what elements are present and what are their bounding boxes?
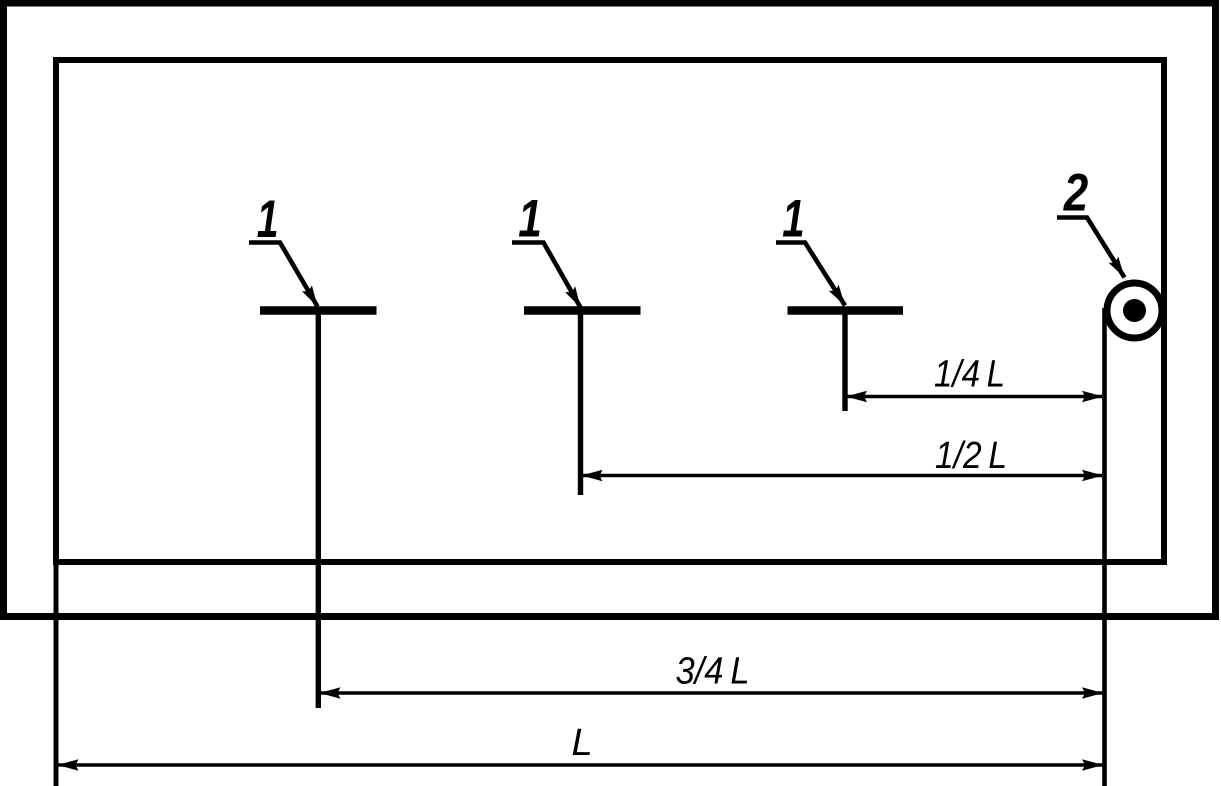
dimension line 3/4 L bbox=[320, 691, 1104, 695]
inner vessel wall bbox=[56, 60, 1164, 562]
dimension arrowhead left (3/4 L) bbox=[320, 687, 341, 699]
svg-text:1/4 L: 1/4 L bbox=[934, 353, 1005, 395]
marker 1 (left) stem / extension line bbox=[316, 311, 321, 709]
leader arrowhead (marker 1 middle) bbox=[565, 286, 580, 307]
dimension arrowhead left (1/2 L) bbox=[582, 470, 603, 482]
svg-text:1: 1 bbox=[257, 189, 279, 248]
dimension arrowhead left (1/4 L) bbox=[846, 391, 867, 403]
dimension arrowhead right (L) bbox=[1082, 759, 1103, 771]
marker 1 (right) crossbar bbox=[788, 306, 904, 315]
leader line for label 2 (device 2) bbox=[1057, 218, 1125, 278]
dimension line L bbox=[58, 763, 1104, 767]
left extension line (from inner wall to bottom) bbox=[54, 560, 59, 786]
dimension arrowhead left (L) bbox=[58, 759, 79, 771]
device 2 center dot bbox=[1123, 299, 1146, 322]
svg-text:1: 1 bbox=[518, 190, 542, 249]
leader line for label 1 (marker 1 left) bbox=[249, 243, 318, 307]
leader arrowhead (marker 1 left) bbox=[302, 285, 318, 306]
dimension arrowhead right (3/4 L) bbox=[1082, 687, 1103, 699]
svg-text:3/4 L: 3/4 L bbox=[676, 651, 750, 693]
svg-text:1: 1 bbox=[782, 188, 804, 248]
svg-text:2: 2 bbox=[1063, 164, 1088, 223]
svg-text:L: L bbox=[572, 722, 593, 764]
marker 1 (middle) crossbar bbox=[524, 306, 641, 315]
leader arrowhead (marker 1 right) bbox=[829, 285, 845, 306]
dimension line 1/4 L bbox=[846, 395, 1103, 399]
svg-text:1/2 L: 1/2 L bbox=[935, 435, 1007, 477]
leader line for label 1 (marker 1 middle) bbox=[512, 243, 581, 308]
device 2 ring bbox=[1107, 283, 1162, 338]
dimension arrowhead right (1/2 L) bbox=[1082, 470, 1103, 482]
right extension line (from device 2 to bottom) bbox=[1102, 308, 1107, 786]
dimension line 1/2 L bbox=[582, 474, 1104, 478]
marker 1 (right) stem / extension line bbox=[842, 311, 847, 412]
outer vessel wall bbox=[4, 3, 1216, 617]
dimension arrowhead right (1/4 L) bbox=[1082, 391, 1103, 403]
leader arrowhead (device 2) bbox=[1109, 257, 1125, 278]
leader line for label 1 (marker 1 right) bbox=[776, 243, 845, 306]
marker 1 (left) crossbar bbox=[260, 306, 377, 315]
marker 1 (middle) stem / extension line bbox=[578, 311, 583, 496]
